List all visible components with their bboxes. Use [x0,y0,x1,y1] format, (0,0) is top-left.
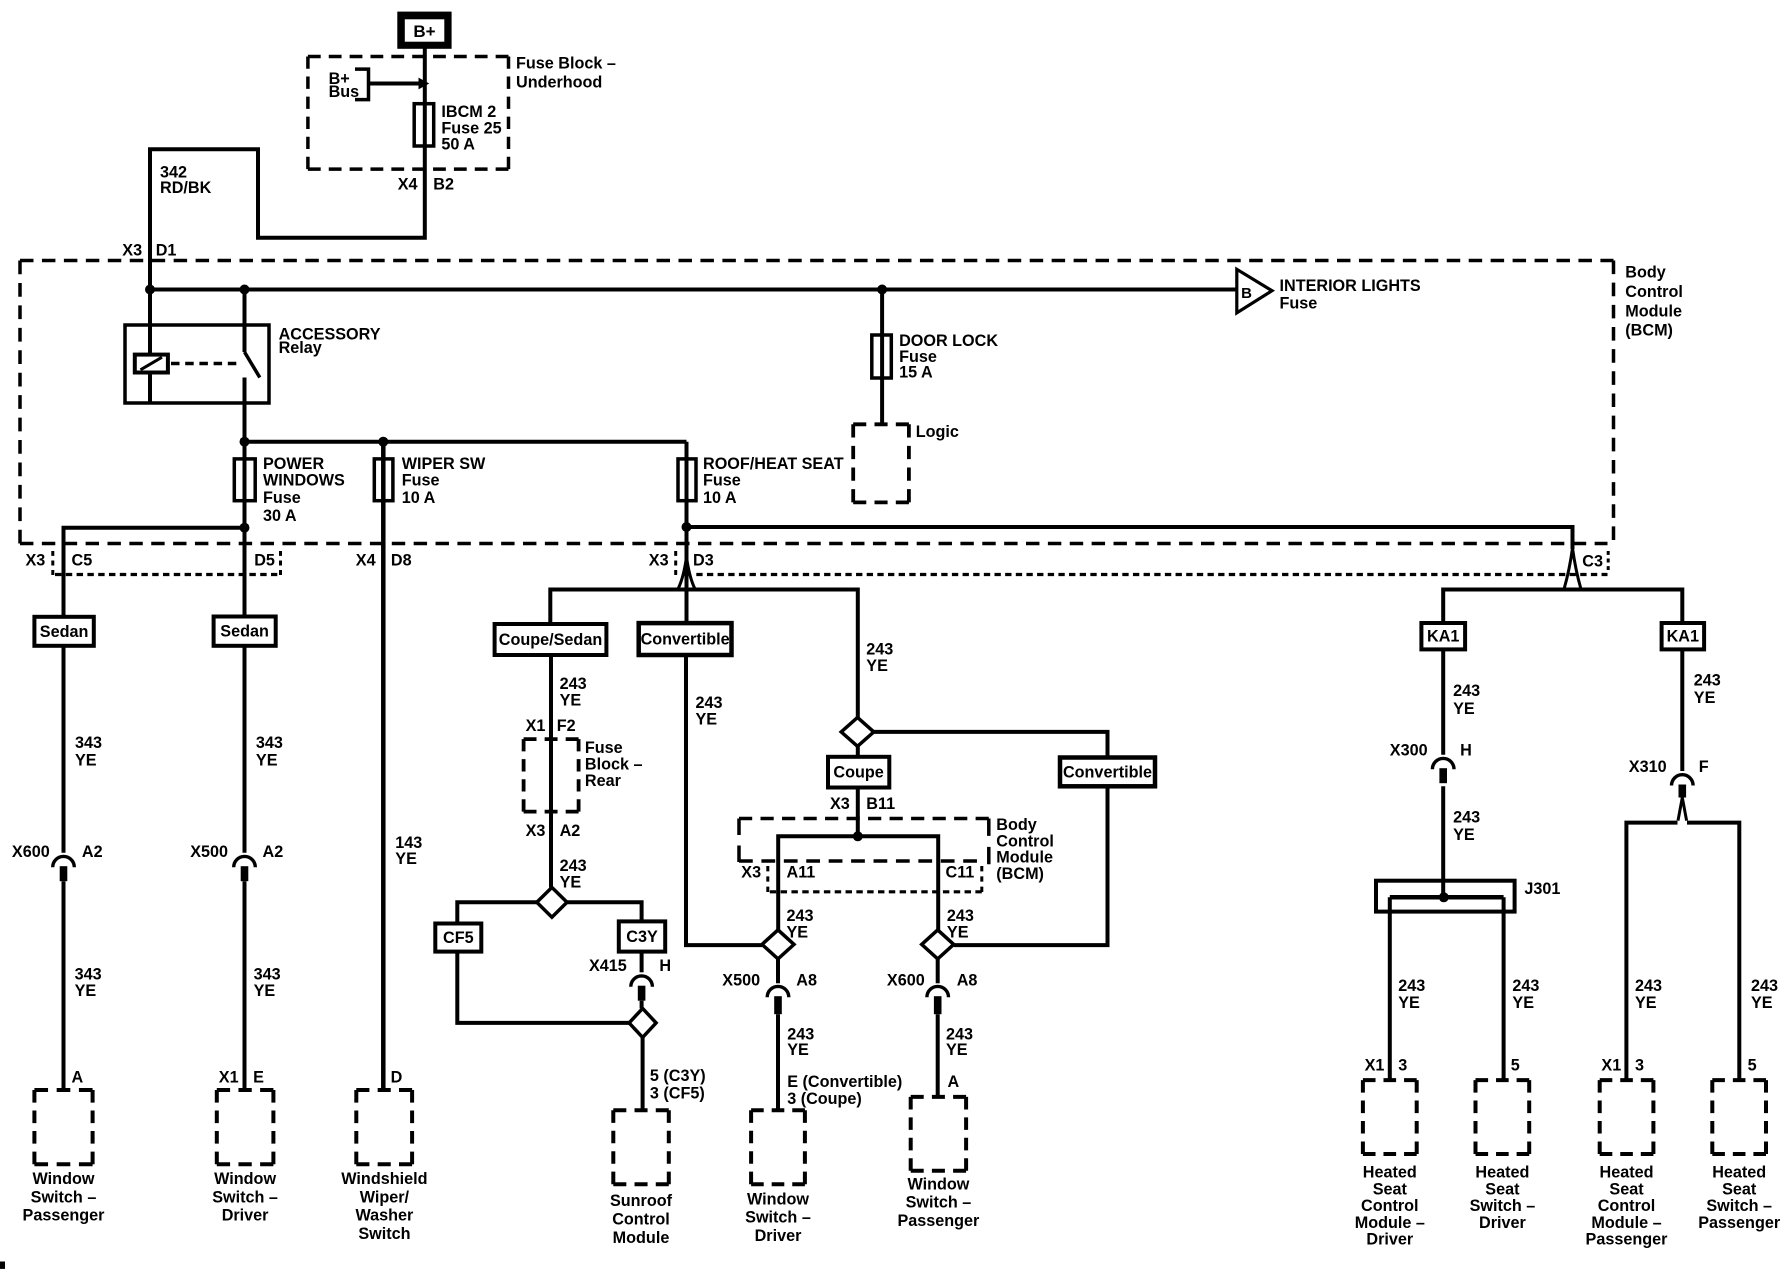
BCM dashed outline left [18,261,22,544]
mid BCM strip ticks [768,866,982,892]
svg-text:Fuse: Fuse [585,739,623,757]
wire second bus [245,440,687,444]
wire convertible-left lower [686,655,762,945]
wire coupe diamond right to convertible-right [874,732,1108,758]
svg-text:Bus: Bus [329,83,360,101]
svg-text:15 A: 15 A [899,363,933,381]
pin labels X3 C5 [26,552,93,570]
svg-text:YE: YE [1453,700,1475,718]
svg-text:POWER: POWER [263,455,324,473]
svg-text:J301: J301 [1524,880,1560,898]
label Body Control Module BCM [1625,264,1683,340]
pin labels X4 D8 [356,552,412,570]
pin labels X1 3 hs ctrl driver [1365,1056,1408,1074]
wire door lock fuse drop [880,290,884,425]
pin labels X4 B2 [398,176,454,194]
wire diamond3 to coupe box [856,746,860,757]
inline connector X600 A2 [53,856,75,881]
svg-text:Convertible: Convertible [1063,763,1152,781]
option box KA1 right [1662,623,1705,649]
fuse F5 ROOF/HEAT SEAT 10A [678,459,696,501]
svg-text:ROOF/HEAT SEAT: ROOF/HEAT SEAT [703,455,844,473]
label mid Body Control Module BCM [996,816,1054,883]
label 243 YE below coupe/sedan [560,675,587,710]
svg-text:Module: Module [1625,302,1682,320]
labels X300 H [1390,741,1472,759]
wire diamond4 to X500 [776,959,780,983]
label Fuse Block - Rear [585,739,643,790]
option box CF5 [435,924,481,952]
wire col1 sedan to X600 [62,646,66,853]
relay actuating dashed link [171,362,238,366]
svg-text:243: 243 [560,675,587,693]
svg-text:YE: YE [696,711,718,729]
pin label C3 [1582,553,1603,571]
svg-text:Fuse 25: Fuse 25 [441,119,501,137]
connector split at D3 [678,557,695,589]
label 243 YE X500 col [787,1025,814,1059]
wire relay output to second bus [243,378,247,442]
junction dot wiper sw [378,437,388,447]
wire convertible-right lower [954,786,1108,945]
wire C3 branches to KA1 pair [1443,590,1682,624]
svg-text:B2: B2 [433,176,454,194]
pin labels 5 C3Y 3 CF5 [650,1067,706,1103]
label Fuse Block - Underhood [516,54,616,91]
wire relay switch drop [243,290,247,353]
pin labels X3 D1 [122,241,176,259]
svg-text:YE: YE [1635,994,1657,1012]
svg-text:YE: YE [1398,994,1420,1012]
svg-text:A2: A2 [263,843,284,861]
svg-text:YE: YE [256,752,278,770]
connector split at C3 [1564,548,1581,589]
svg-text:243: 243 [560,857,587,875]
svg-text:Switch –: Switch – [745,1209,811,1227]
svg-text:Passenger: Passenger [1698,1214,1781,1232]
svg-text:E (Convertible): E (Convertible) [787,1073,902,1091]
svg-text:X300: X300 [1390,741,1428,759]
wire power windows column [243,442,247,617]
splice pack J301 box [1376,881,1515,912]
relay switch blade [245,352,260,378]
svg-text:X3: X3 [830,795,850,813]
wire KA1-left to X300 [1441,649,1445,754]
svg-text:Seat: Seat [1373,1180,1408,1198]
svg-text:YE: YE [1694,689,1716,707]
BCM dashed outline bottom [20,542,1608,546]
svg-text:X600: X600 [887,971,925,989]
svg-text:YE: YE [947,924,969,942]
label 343 YE col1 upper [75,734,102,770]
wire X500 to window switch driver mid [776,1014,780,1110]
svg-text:Fuse Block –: Fuse Block – [516,54,616,72]
wire col2 sedan to X500 [243,646,247,853]
svg-text:X4: X4 [398,176,418,194]
wire mid BCM internal split [778,836,938,930]
svg-text:Module: Module [613,1229,670,1247]
svg-text:Fuse: Fuse [263,489,301,507]
svg-text:Sunroof: Sunroof [610,1192,673,1210]
svg-text:A11: A11 [787,864,816,882]
option box C3Y [619,921,665,951]
svg-text:243: 243 [696,694,723,712]
wire KA1-right to X310 [1680,649,1684,771]
component Window Switch - Driver mid [745,1110,811,1245]
svg-text:A: A [948,1073,960,1091]
svg-text:E: E [253,1068,264,1086]
svg-text:3 (CF5): 3 (CF5) [650,1085,705,1103]
wire X600 to window switch passenger mid [936,1014,940,1097]
svg-text:Body: Body [996,816,1036,834]
svg-text:X4: X4 [356,552,376,570]
svg-text:Fuse: Fuse [703,472,741,490]
svg-text:Heated: Heated [1600,1164,1654,1182]
wire long bus to C3 [687,527,1573,549]
fuse F3 POWER WINDOWS 30A [234,459,255,501]
svg-text:INTERIOR LIGHTS: INTERIOR LIGHTS [1280,277,1421,295]
svg-text:243: 243 [1635,977,1662,995]
label 342 RD/BK [160,163,212,197]
svg-text:CF5: CF5 [443,929,474,947]
svg-text:(BCM): (BCM) [1625,322,1673,340]
junction dot at relay switch feed [240,285,250,295]
svg-text:Passenger: Passenger [1586,1231,1669,1249]
pin labels X1 3 hs ctrl passenger [1601,1056,1644,1074]
option box KA1 left [1421,623,1465,649]
splice diamond X500 [762,930,794,959]
svg-text:A: A [72,1068,84,1086]
svg-text:Switch –: Switch – [31,1188,97,1206]
svg-text:F2: F2 [557,717,576,735]
option box Convertible left [639,623,732,655]
wire roof heat seat column [685,442,689,623]
svg-text:A2: A2 [82,843,103,861]
wire wiper sw column [381,442,386,1090]
svg-text:Block –: Block – [585,756,643,774]
component Heated Seat Control Module - Driver [1355,1080,1425,1249]
svg-text:Logic: Logic [916,423,959,441]
svg-text:Heated: Heated [1475,1164,1529,1182]
label ACCESSORY Relay [279,326,381,358]
svg-text:Coupe/Sedan: Coupe/Sedan [499,631,602,649]
svg-text:Relay: Relay [279,339,322,357]
svg-text:Sedan: Sedan [220,623,269,641]
svg-text:Heated: Heated [1712,1164,1766,1182]
wire diamond1 right to C3Y [567,902,642,921]
wire D3 left branch to Coupe/Sedan [550,590,858,718]
svg-text:Convertible: Convertible [641,631,730,649]
junction dot roof fuse output [682,522,692,532]
svg-text:KA1: KA1 [1427,628,1459,646]
svg-text:Heated: Heated [1363,1164,1417,1182]
label ROOF/HEAT SEAT Fuse 10 A [703,455,844,507]
component Window Switch - Driver left [212,1090,278,1225]
connector split below X310 [1678,798,1687,821]
wire X310 right branch to heated seat switch passenger [1687,823,1739,1081]
label 243 YE A11 col [787,907,814,942]
svg-text:A8: A8 [796,971,817,989]
pin label A X600 col [948,1073,960,1091]
wire col2 to window switch driver [243,881,247,1090]
fuse block underhood dashed outline [308,57,509,170]
svg-text:X3: X3 [741,864,761,882]
pin labels X1 E col2 [219,1068,264,1086]
wire X415 to diamond2 [640,1001,644,1009]
inline connector X500 A8 [767,986,789,1014]
inline connector X500 A2 [234,856,256,881]
svg-text:C5: C5 [72,552,93,570]
svg-text:YE: YE [866,657,888,675]
wire branch to C5 [64,528,245,617]
svg-text:50 A: 50 A [441,136,475,154]
label 243 YE C11 col [947,907,974,942]
wire main bus inside BCM [150,288,1237,292]
option box Coupe [828,757,889,788]
component Heated Seat Switch - Driver [1470,1080,1536,1232]
wire J301 internal bus [1390,895,1504,900]
svg-text:C3Y: C3Y [626,928,658,946]
svg-text:243: 243 [947,907,974,925]
svg-text:Coupe: Coupe [833,764,883,782]
svg-text:D8: D8 [391,552,412,570]
svg-text:YE: YE [75,982,97,1000]
label 243 YE X600 col [946,1025,973,1059]
labels X500 A2 [190,843,283,861]
pin label D5 [254,552,275,570]
pin label 5 hs switch passenger [1748,1056,1757,1074]
svg-text:X600: X600 [12,843,50,861]
junction dot J301 [1439,892,1449,902]
svg-text:Windshield: Windshield [341,1170,427,1188]
svg-text:5 (C3Y): 5 (C3Y) [650,1067,706,1085]
label 243 YE above splice [560,857,587,892]
label 343 YE col2 upper [256,734,283,770]
svg-text:Control: Control [1361,1197,1419,1215]
wire diamond1 left to CF5 [457,902,537,923]
pin labels X1 F2 [526,717,576,735]
svg-text:Switch –: Switch – [906,1194,972,1212]
relay coil symbol [135,355,168,373]
svg-text:243: 243 [866,640,893,658]
labels X600 A2 [12,843,103,861]
svg-text:X1: X1 [1601,1056,1621,1074]
label DOOR LOCK Fuse 15 A [899,332,998,381]
wire J301 to heated seat switch driver [1502,897,1506,1080]
svg-text:X3: X3 [526,822,546,840]
fuse F4 WIPER SW 10A [374,459,393,501]
svg-text:Passenger: Passenger [23,1207,106,1225]
svg-text:Washer: Washer [355,1207,414,1225]
svg-text:Window: Window [33,1170,95,1188]
pin label A col1 [72,1068,84,1086]
inline connector X600 A8 [927,986,949,1014]
svg-text:Driver: Driver [1479,1214,1526,1232]
component Heated Seat Switch - Passenger [1698,1080,1781,1232]
component Heated Seat Control Module - Passenger [1586,1080,1669,1249]
svg-text:WINDOWS: WINDOWS [263,472,345,490]
labels X415 H [589,957,671,975]
svg-text:3 (Coupe): 3 (Coupe) [787,1090,862,1108]
svg-text:Driver: Driver [222,1207,269,1225]
svg-text:A8: A8 [957,971,978,989]
svg-text:F: F [1699,758,1709,776]
svg-text:Rear: Rear [585,772,622,790]
label 243 YE coupe column [866,640,893,675]
pin label 5 hs switch driver [1511,1056,1520,1074]
svg-text:Fuse: Fuse [402,472,440,490]
svg-text:Driver: Driver [1366,1231,1413,1249]
inline connector X300 H [1432,758,1454,783]
labels X310 F [1629,758,1709,776]
label 243 YE KA1-left lower [1453,809,1480,845]
svg-text:KA1: KA1 [1667,628,1699,646]
svg-text:243: 243 [1453,682,1480,700]
label 243 YE convertible col [696,694,723,729]
option box Sedan left [34,617,93,646]
svg-text:YE: YE [254,982,276,1000]
svg-text:X3: X3 [26,552,46,570]
junction dot below power windows fuse [240,523,250,533]
junction dot at relay coil feed [145,285,155,295]
svg-text:Control: Control [1598,1197,1656,1215]
wire J301 to heated seat control module driver [1388,897,1392,1080]
svg-text:243: 243 [1751,977,1778,995]
svg-text:243: 243 [787,907,814,925]
svg-text:B+: B+ [413,22,435,41]
svg-text:Module –: Module – [1591,1214,1661,1232]
option box Coupe/Sedan [495,624,607,655]
fuse symbol triangle INTERIOR LIGHTS [1237,269,1272,313]
node B+ Bus bracket [329,69,369,101]
svg-text:Switch –: Switch – [1470,1197,1536,1215]
component Windshield Wiper/Washer Switch [341,1090,427,1243]
mid BCM strip line [770,890,982,893]
svg-text:243: 243 [1398,977,1425,995]
splice diamond sunroof [629,1008,656,1037]
wire relay coil bottom stub [148,373,152,404]
label 143 YE wiper column [395,834,422,868]
wire col1 to window switch passenger [62,881,66,1090]
svg-text:Seat: Seat [1722,1180,1757,1198]
svg-text:YE: YE [1453,826,1475,844]
svg-text:H: H [659,957,671,975]
inline connector X310 F [1672,775,1694,798]
label 343 YE col1 lower [75,965,102,1000]
labels X500 A8 [722,971,817,989]
wire B+ drop and 342 zigzag to BCM [150,48,425,355]
svg-text:WIPER SW: WIPER SW [402,455,486,473]
svg-text:YE: YE [787,1041,809,1059]
battery terminal B+ [397,12,451,49]
svg-text:YE: YE [946,1041,968,1059]
svg-text:B: B [1241,285,1252,302]
page margin mark [0,1262,5,1269]
wire coupe/sedan to diamond [549,655,553,887]
option box Sedan right [214,617,276,646]
svg-text:B11: B11 [866,795,895,813]
pin labels X3 A11 C11 [741,864,974,882]
label 243 YE KA1-right [1694,672,1721,708]
label Logic [916,423,959,441]
svg-text:Driver: Driver [755,1227,802,1245]
strip separator ticks [53,551,1608,575]
svg-text:YE: YE [1512,994,1534,1012]
svg-text:X415: X415 [589,957,627,975]
svg-text:343: 343 [75,965,102,983]
svg-text:RD/BK: RD/BK [160,179,212,197]
BCM dashed outline right [1612,261,1616,541]
svg-text:Sedan: Sedan [40,623,89,641]
svg-text:D5: D5 [254,552,275,570]
svg-text:Wiper/: Wiper/ [360,1188,410,1206]
svg-text:5: 5 [1748,1056,1757,1074]
svg-text:30 A: 30 A [263,507,297,525]
label J301 [1524,880,1560,898]
svg-text:X500: X500 [722,971,760,989]
svg-text:X1: X1 [1365,1056,1385,1074]
component Sunroof Control Module [610,1110,673,1247]
svg-text:X500: X500 [190,843,228,861]
relay K1 ACCESSORY box [125,325,269,403]
label 343 YE col2 lower [254,965,281,1000]
svg-text:YE: YE [1751,994,1773,1012]
label 243 YE hs switch passenger [1751,977,1778,1012]
svg-text:X1: X1 [526,717,546,735]
svg-text:343: 343 [75,734,102,752]
fuse F2 DOOR LOCK 15A [872,335,892,378]
svg-text:D: D [391,1068,403,1086]
svg-text:D3: D3 [693,552,714,570]
label WIPER SW Fuse 10 A [402,455,486,507]
svg-text:Window: Window [747,1190,809,1208]
svg-text:D1: D1 [156,241,177,259]
svg-text:Body: Body [1625,264,1665,282]
svg-text:YE: YE [560,692,582,710]
svg-text:343: 343 [256,734,283,752]
svg-text:Switch: Switch [358,1225,410,1243]
svg-text:X310: X310 [1629,758,1667,776]
wire X300 to J301 [1441,786,1445,897]
label 243 YE hs switch driver [1512,977,1539,1012]
svg-text:3: 3 [1635,1056,1644,1074]
option box Convertible right [1060,758,1155,787]
svg-text:Module –: Module – [1355,1214,1425,1232]
wire C3Y to X415 [640,952,644,973]
svg-text:243: 243 [1453,809,1480,827]
label IBCM 2 Fuse 25 50 A [441,103,501,154]
svg-text:5: 5 [1511,1056,1520,1074]
wire diamond2 to sunroof module [641,1037,645,1110]
svg-text:Module: Module [996,849,1053,867]
svg-text:243: 243 [1694,672,1721,690]
svg-text:H: H [1460,741,1472,759]
svg-text:343: 343 [254,965,281,983]
junction dot mid BCM [853,831,863,841]
pin labels X3 D3 [649,552,714,570]
svg-text:Window: Window [907,1175,969,1193]
splice diamond fuse block rear [537,887,567,917]
svg-text:3: 3 [1398,1056,1407,1074]
inline connector X415 H [631,976,653,1001]
junction dot power windows [240,437,250,447]
svg-text:Window: Window [214,1170,276,1188]
wire coupe box to BCM junction [856,788,860,837]
pin labels X3 A2 [526,822,581,840]
svg-text:(BCM): (BCM) [996,865,1044,883]
wire B+ Bus to main wire with arrowhead [369,78,430,90]
labels X600 A8 [887,971,978,989]
